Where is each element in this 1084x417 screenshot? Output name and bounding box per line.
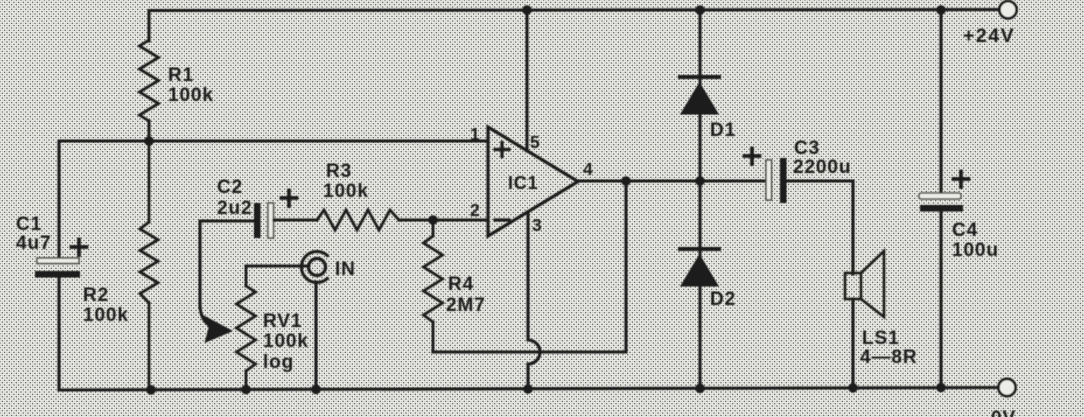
node output junction xyxy=(621,176,631,186)
pin 4 output wire xyxy=(578,179,766,182)
capacitor C2 xyxy=(254,203,261,238)
pin 5 wire xyxy=(525,10,528,151)
svg-text:D1: D1 xyxy=(710,120,736,141)
svg-text:3: 3 xyxy=(532,215,542,235)
terminal 0V xyxy=(998,379,1015,396)
svg-text:IN: IN xyxy=(335,259,356,280)
resistor R3 xyxy=(317,210,399,230)
capacitor C4 xyxy=(939,10,942,193)
svg-text:C1: C1 xyxy=(16,214,42,235)
resistor R2 xyxy=(140,141,158,390)
diode D2 xyxy=(680,247,719,251)
wire C2 right plate to R3 xyxy=(274,218,317,221)
svg-text:log: log xyxy=(263,352,294,373)
wiper arrow of RV1 xyxy=(200,304,209,325)
node A junction R1/R2/C1/pin1 xyxy=(144,136,154,146)
svg-text:2u2: 2u2 xyxy=(217,198,252,219)
svg-text:1: 1 xyxy=(470,124,480,144)
wire feedback R4 to output node xyxy=(433,181,626,352)
wire bottom 0V rail xyxy=(59,388,998,391)
svg-text:RV1: RV1 xyxy=(263,311,302,332)
svg-text:R2: R2 xyxy=(83,285,109,306)
junction dots on bottom rail xyxy=(146,385,156,395)
svg-text:2200u: 2200u xyxy=(793,157,851,178)
svg-text:100k: 100k xyxy=(263,331,309,352)
node diode column junction xyxy=(695,176,705,186)
svg-text:100u: 100u xyxy=(952,240,999,261)
capacitor C3 xyxy=(766,160,772,200)
svg-text:LS1: LS1 xyxy=(862,328,900,349)
svg-text:R3: R3 xyxy=(326,161,352,182)
svg-text:100k: 100k xyxy=(323,181,369,202)
svg-text:100k: 100k xyxy=(168,85,214,106)
plus input mark xyxy=(495,143,509,157)
resistor R1 xyxy=(140,40,159,121)
svg-text:IC1: IC1 xyxy=(508,173,538,193)
wire R3 to pin 2 xyxy=(399,218,488,221)
wire LS1 to bottom rail xyxy=(851,299,854,390)
svg-text:2M7: 2M7 xyxy=(446,295,486,316)
connector IN xyxy=(246,264,308,267)
wire C2 left plate to wiper xyxy=(200,221,254,308)
wire R1 bottom to node xyxy=(147,121,150,141)
svg-text:4u7: 4u7 xyxy=(16,233,51,254)
svg-text:4: 4 xyxy=(583,159,593,179)
svg-text:R1: R1 xyxy=(168,65,194,86)
svg-text:5: 5 xyxy=(530,132,540,152)
wire node left to C1 branch xyxy=(59,141,149,259)
svg-text:+24V: +24V xyxy=(963,25,1015,47)
pin 3 wire with hop over feedback xyxy=(528,212,540,390)
wire C3 to LS1 xyxy=(786,181,853,274)
wire IN shield to bottom rail xyxy=(314,282,317,390)
wire C1 to bottom rail xyxy=(57,277,60,390)
potentiometer RV1 xyxy=(237,266,256,390)
svg-text:C2: C2 xyxy=(217,177,243,198)
resistor R4 xyxy=(424,220,443,352)
svg-text:0V: 0V xyxy=(991,408,1016,417)
wire diode column xyxy=(698,10,701,390)
speaker LS1 xyxy=(845,273,861,299)
op-amp U1 IC1 xyxy=(488,127,578,236)
svg-text:4—8R: 4—8R xyxy=(860,347,917,368)
svg-text:2: 2 xyxy=(470,200,480,220)
wire node to pin 1 of IC1 xyxy=(149,139,488,142)
wire C4 to bottom rail xyxy=(939,211,942,389)
wire top supply rail xyxy=(149,10,999,41)
svg-text:D2: D2 xyxy=(710,289,736,310)
node B junction R3/R4/pin2 xyxy=(428,215,438,225)
minus input mark xyxy=(495,218,509,221)
svg-text:C4: C4 xyxy=(952,220,978,241)
svg-text:R4: R4 xyxy=(448,274,474,295)
capacitor C1 xyxy=(37,258,79,264)
terminal +24V xyxy=(999,1,1016,18)
svg-text:C3: C3 xyxy=(794,138,820,159)
svg-text:100k: 100k xyxy=(83,305,129,326)
diode D1 xyxy=(680,75,719,79)
